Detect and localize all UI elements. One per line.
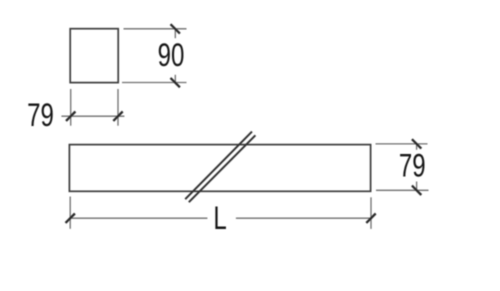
svg-text:90: 90 xyxy=(158,37,185,73)
dimension 90: top extension line xyxy=(124,28,187,30)
dimension 90: bottom extension line xyxy=(122,82,187,84)
dimension 79 (square width): right oblique tick xyxy=(113,112,122,121)
dimension 79 (square width): left extension line xyxy=(70,89,72,126)
dimension L: right oblique tick xyxy=(366,214,375,223)
break line: lower-left diagonal xyxy=(185,132,252,200)
dimension 79 (square width): right extension line xyxy=(117,89,119,126)
dimension 79 (bar height): top oblique tick xyxy=(412,139,421,148)
dimension L: left extension line xyxy=(69,197,71,229)
dimension 90: dimension line upper stub xyxy=(174,29,176,38)
dimension 79 (square width): left oblique tick xyxy=(66,112,75,121)
dimension L: dimension line right segment xyxy=(236,217,371,219)
dimension L: dimension line left segment xyxy=(70,217,207,219)
dimension L: left oblique tick xyxy=(66,214,75,223)
dimension L: right extension line xyxy=(370,197,372,229)
svg-text:L: L xyxy=(213,201,226,237)
svg-text:79: 79 xyxy=(27,98,54,134)
svg-text:79: 79 xyxy=(399,148,426,184)
dimension 79 (square width): dimension line xyxy=(61,115,124,117)
dimension 90: top oblique tick xyxy=(171,24,180,33)
dimension 90: dimension line lower stub xyxy=(174,75,176,83)
square cross-section outline xyxy=(70,29,118,83)
dimension 79 (bar height): bottom extension line xyxy=(376,189,429,191)
dimension 79 (bar height): dimension line upper stub xyxy=(416,144,418,150)
dimension 79 (bar height): dimension line lower stub xyxy=(416,182,418,191)
break line: upper-right diagonal xyxy=(189,135,256,202)
dimension 79 (bar height): bottom oblique tick xyxy=(412,186,421,195)
dimension 79 (bar height): top extension line xyxy=(376,143,428,145)
bar profile outline xyxy=(69,145,370,192)
dimension 90: bottom oblique tick xyxy=(171,78,180,87)
